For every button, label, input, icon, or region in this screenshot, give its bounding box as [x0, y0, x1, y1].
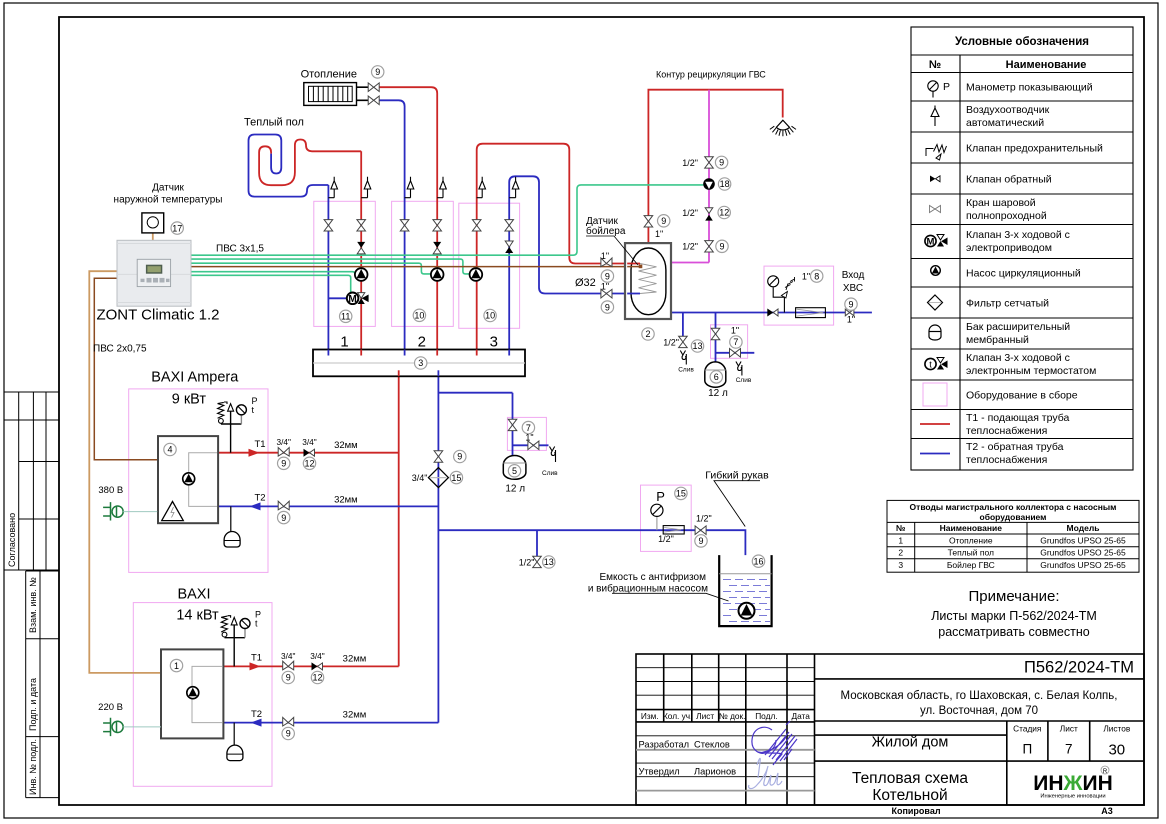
- valve drain13 collector: [533, 556, 542, 567]
- svg-text:T2: T2: [251, 709, 262, 720]
- svg-text:1/2": 1/2": [519, 558, 535, 568]
- wire: tan power wire to boiler2: [89, 271, 161, 673]
- svg-text:Ларионов: Ларионов: [694, 767, 736, 777]
- radiator stubs: [357, 87, 369, 100]
- XVS check valve: [767, 309, 773, 317]
- svg-text:1/2": 1/2": [658, 534, 674, 544]
- legend icon оборудование в сборе: [923, 383, 947, 406]
- legend icon кран шаровой: [930, 206, 941, 213]
- wire: boiler2 T1: [223, 665, 398, 667]
- title block grid: [636, 654, 1144, 805]
- svg-text:13: 13: [544, 557, 554, 567]
- svg-text:Манометр показывающий: Манометр показывающий: [966, 82, 1093, 94]
- svg-text:5: 5: [512, 466, 517, 476]
- svg-text:Стадия: Стадия: [1013, 724, 1041, 734]
- svg-text:7: 7: [1065, 742, 1073, 757]
- svg-text:№: №: [896, 523, 906, 533]
- XVS pressure reducer: [768, 276, 795, 313]
- 3-way valve with motor group1: [328, 293, 368, 306]
- svg-text:наружной температуры: наружной температуры: [114, 195, 223, 206]
- filter strainer: [428, 468, 448, 488]
- svg-text:12: 12: [304, 459, 314, 469]
- svg-text:9: 9: [281, 513, 286, 523]
- svg-text:Кран шаровой: Кран шаровой: [966, 197, 1036, 209]
- boiler2 T1 arrow: [250, 662, 261, 670]
- svg-text:7: 7: [526, 423, 531, 433]
- wire: supply trunk red below collector: [398, 376, 400, 666]
- svg-text:Оборудование в сборе: Оборудование в сборе: [966, 390, 1078, 402]
- valve XVS drain13: [679, 336, 688, 347]
- svg-text:1/2": 1/2": [682, 158, 698, 168]
- svg-text:P: P: [656, 489, 665, 504]
- antifreeze tank: [719, 555, 771, 626]
- svg-text:T1: T1: [255, 439, 266, 450]
- equipment box XVS filter: [764, 266, 834, 325]
- svg-text:9: 9: [605, 302, 610, 312]
- svg-text:17: 17: [172, 223, 182, 233]
- title block header texts: [641, 711, 810, 721]
- svg-text:15: 15: [676, 489, 686, 499]
- wire: boiler1 T2: [218, 505, 438, 507]
- svg-text:Бак расширительный: Бак расширительный: [966, 321, 1070, 333]
- legend icon бак: [929, 325, 941, 340]
- svg-text:Фильтр сетчатый: Фильтр сетчатый: [966, 298, 1049, 310]
- boiler1 membrane tank: [230, 506, 232, 531]
- valve tank5 riser: [508, 419, 517, 430]
- svg-text:1": 1": [601, 282, 609, 292]
- svg-text:M: M: [927, 237, 935, 248]
- wire: DHW magenta: [671, 90, 709, 263]
- boiler2 T2 arrow: [251, 719, 262, 727]
- boiler1 unit: [158, 436, 218, 523]
- svg-text:Подп. и дата: Подп. и дата: [28, 678, 38, 731]
- signature 2: [749, 758, 782, 788]
- svg-text:Т2 - обратная труба: Т2 - обратная труба: [966, 441, 1064, 453]
- svg-text:9: 9: [457, 452, 462, 462]
- wire: boiler2 T2: [223, 722, 438, 724]
- wire: tank6 branch: [716, 313, 755, 362]
- svg-text:Котельной: Котельной: [872, 787, 947, 804]
- svg-text:9: 9: [661, 216, 666, 226]
- svg-text:№: №: [929, 59, 941, 71]
- legend table frame: [911, 27, 1133, 470]
- svg-text:1: 1: [174, 661, 179, 671]
- pump group box 1: [314, 201, 376, 326]
- svg-text:Наименование: Наименование: [940, 523, 1003, 533]
- svg-text:Бойлер ГВС: Бойлер ГВС: [947, 560, 995, 570]
- svg-text:Лист: Лист: [696, 711, 714, 721]
- svg-text:1/2": 1/2": [663, 338, 679, 348]
- wire: boiler1 T1: [218, 452, 399, 454]
- svg-text:теплоснабжения: теплоснабжения: [966, 454, 1047, 466]
- svg-text:Инженерные инновации: Инженерные инновации: [1040, 794, 1105, 800]
- valve boiler2 T1: [283, 661, 294, 670]
- callout емкость: [612, 593, 729, 601]
- svg-text:9: 9: [719, 242, 724, 252]
- wire: boiler hot outlet red riser and recirc: [648, 90, 782, 243]
- svg-text:ИНЖИН: ИНЖИН: [1033, 772, 1113, 795]
- svg-text:Утвердил: Утвердил: [639, 767, 680, 777]
- svg-text:13: 13: [692, 341, 702, 351]
- svg-text:Листов: Листов: [1103, 724, 1131, 734]
- svg-text:Grundfos UPSO 25-65: Grundfos UPSO 25-65: [1040, 536, 1126, 546]
- air vent stub and symbol x6: [328, 177, 519, 198]
- wire: return trunk blue below collector: [437, 376, 439, 722]
- svg-text:18: 18: [720, 179, 730, 189]
- svg-text:32мм: 32мм: [343, 710, 367, 721]
- svg-text:П562/2024-ТМ: П562/2024-ТМ: [1024, 659, 1134, 677]
- svg-text:Дата: Дата: [792, 711, 811, 721]
- svg-text:2: 2: [898, 548, 903, 558]
- wire: group3 blue from boiler: [509, 176, 640, 349]
- XVS filter cartridge: [796, 308, 826, 318]
- legend icon манометр: [928, 81, 938, 98]
- pump 1: [355, 268, 368, 281]
- legend icon воздухоотводчик: [931, 106, 939, 127]
- svg-text:1": 1": [802, 272, 810, 282]
- logo ИНЖИН: [1033, 766, 1113, 800]
- svg-text:Датчик: Датчик: [152, 183, 184, 194]
- valve tank5 drain: [528, 441, 539, 450]
- svg-text:10: 10: [414, 311, 424, 321]
- svg-text:1/2": 1/2": [696, 514, 712, 524]
- check valve magenta: [705, 208, 713, 214]
- svg-text:Клапан предохранительный: Клапан предохранительный: [966, 143, 1103, 155]
- check valve group2 down: [433, 242, 441, 248]
- wire: group3 red to boiler coil: [477, 144, 640, 350]
- wire: XVS cold water line: [671, 312, 872, 314]
- svg-text:2: 2: [645, 329, 650, 339]
- legend icon клапан 3-х терм: [925, 358, 948, 370]
- plug 220V: [103, 718, 161, 736]
- wire: green to pump2: [191, 263, 431, 274]
- wire: radiator supply red: [379, 87, 437, 349]
- svg-text:Слив: Слив: [736, 377, 752, 384]
- svg-text:П: П: [1022, 742, 1032, 757]
- signature 1: [752, 721, 797, 765]
- svg-text:Московская область, го Шаховск: Московская область, го Шаховская, с. Бел…: [841, 690, 1118, 702]
- svg-text:2: 2: [418, 334, 426, 351]
- wire: radiator return blue: [379, 100, 404, 349]
- legend icon T2 line: [920, 453, 950, 455]
- valve antifreeze line: [695, 526, 706, 535]
- svg-text:Grundfos UPSO 25-65: Grundfos UPSO 25-65: [1040, 548, 1126, 558]
- svg-text:3/4": 3/4": [310, 651, 325, 661]
- svg-text:Отопление: Отопление: [301, 69, 357, 81]
- svg-text:Теплый пол: Теплый пол: [948, 548, 994, 558]
- boiler tank: [625, 243, 671, 319]
- svg-text:ХВС: ХВС: [843, 283, 863, 294]
- valve boiler riser: [644, 216, 653, 227]
- drain hook tank5: [550, 447, 556, 463]
- equipment box tank5 valve: [507, 417, 546, 450]
- svg-text:16: 16: [753, 556, 763, 566]
- valve boiler coil in: [601, 258, 612, 267]
- pump group box 3: [459, 203, 520, 328]
- boiler2 unit: [161, 649, 223, 738]
- valve return trunk: [434, 451, 443, 462]
- circled position numbers: [164, 66, 857, 740]
- svg-text:ул. Восточная, дом 70: ул. Восточная, дом 70: [920, 705, 1038, 717]
- wire: brown sensor wire to boiler tank: [191, 266, 641, 268]
- boiler2 safety group: [225, 617, 251, 666]
- legend icon клапан предохранительный: [926, 145, 947, 161]
- boiler sensor point: [639, 265, 643, 269]
- svg-text:9: 9: [698, 536, 703, 546]
- svg-text:Согласовано: Согласовано: [7, 513, 17, 567]
- svg-text:Подл.: Подл.: [755, 711, 777, 721]
- svg-text:220 В: 220 В: [98, 702, 123, 713]
- wire: sensor to ZONT: [152, 233, 154, 240]
- pump 2: [431, 268, 444, 281]
- svg-text:Инв. № подл.: Инв. № подл.: [28, 739, 38, 795]
- svg-text:3/4": 3/4": [276, 437, 291, 447]
- svg-text:полнопроходной: полнопроходной: [966, 210, 1047, 222]
- pump group box 2: [392, 201, 454, 326]
- svg-text:12: 12: [312, 673, 322, 683]
- pipe stubs into collector: [327, 350, 329, 356]
- svg-text:1": 1": [847, 315, 855, 325]
- svg-text:BAXI: BAXI: [177, 587, 210, 603]
- svg-text:11: 11: [341, 312, 350, 322]
- svg-text:бойлера: бойлера: [586, 225, 626, 237]
- valve radiator return: [368, 96, 379, 105]
- wire: floor coil blue part: [249, 135, 329, 197]
- svg-text:и вибрационным насосом: и вибрационным насосом: [588, 583, 708, 595]
- svg-text:Наименование: Наименование: [1006, 59, 1087, 71]
- drain hook tank6: [736, 362, 742, 376]
- svg-text:электронным термостатом: электронным термостатом: [966, 365, 1096, 377]
- valve tank6 drain: [730, 349, 741, 358]
- boiler coil outlet overlay: [627, 293, 640, 295]
- equipment box boiler1: [129, 389, 268, 573]
- wire: green to pump1: [191, 272, 355, 275]
- svg-text:4: 4: [167, 445, 172, 455]
- valve radiator supply: [368, 83, 379, 92]
- wire: antifreeze fill line: [438, 530, 745, 603]
- equipment box tank6 valve: [711, 325, 748, 359]
- legend icon T1 line: [920, 423, 950, 425]
- svg-text:Отопление: Отопление: [949, 536, 993, 546]
- svg-text:1": 1": [525, 433, 533, 443]
- svg-text:Теплый пол: Теплый пол: [244, 117, 304, 129]
- valve boiler1 T2: [278, 501, 289, 510]
- svg-text:Контур рециркуляции ГВС: Контур рециркуляции ГВС: [656, 70, 766, 80]
- svg-text:А3: А3: [1101, 806, 1113, 816]
- svg-text:14 кВт: 14 кВт: [176, 608, 219, 624]
- equipment box pressure unit: [641, 485, 692, 551]
- svg-text:Условные обозначения: Условные обозначения: [955, 36, 1089, 48]
- legend icon клапан 3-х эл: [925, 235, 948, 248]
- check boiler1 T1: [304, 449, 310, 457]
- svg-text:P: P: [943, 81, 950, 93]
- svg-text:T2: T2: [255, 493, 266, 504]
- svg-text:Лист: Лист: [1060, 724, 1078, 734]
- svg-text:Клапан обратный: Клапан обратный: [966, 174, 1052, 186]
- left margin lower boxes: [26, 571, 59, 798]
- svg-text:автоматический: автоматический: [966, 117, 1044, 129]
- boiler1 T1 arrow: [249, 449, 260, 457]
- svg-text:ПВС 2х0,75: ПВС 2х0,75: [93, 344, 147, 355]
- legend icon клапан обратный: [930, 176, 936, 183]
- legend icon фильтр: [928, 295, 943, 310]
- svg-text:9: 9: [375, 67, 380, 77]
- svg-text:9 кВт: 9 кВт: [172, 392, 207, 408]
- svg-text:3/4": 3/4": [412, 473, 428, 483]
- svg-text:Насос циркуляционный: Насос циркуляционный: [966, 268, 1081, 280]
- svg-text:1: 1: [898, 536, 903, 546]
- drain hook boiler left: [680, 351, 686, 365]
- expansion tank 5: [503, 456, 526, 480]
- legend icon насос: [931, 266, 941, 276]
- svg-text:15: 15: [451, 473, 461, 483]
- check valve group3 up: [505, 241, 513, 247]
- svg-text:Жилой дом: Жилой дом: [872, 735, 949, 751]
- svg-text:ZONT Climatic 1.2: ZONT Climatic 1.2: [96, 307, 219, 324]
- svg-text:T1: T1: [251, 653, 262, 664]
- svg-text:Копировал: Копировал: [891, 806, 940, 816]
- svg-text:Модель: Модель: [1067, 523, 1100, 533]
- boiler coil inlet overlay: [627, 263, 640, 265]
- svg-text:12 л: 12 л: [505, 484, 525, 495]
- svg-text:Grundfos UPSO 25-65: Grundfos UPSO 25-65: [1040, 560, 1126, 570]
- left margin grid top section: [4, 392, 59, 570]
- wire: drain branch 13: [536, 530, 538, 556]
- valve boiler coil out: [601, 289, 612, 298]
- svg-text:Отводы магистрального коллекто: Отводы магистрального коллектора с насос…: [910, 502, 1117, 512]
- svg-text:M: M: [348, 294, 356, 305]
- svg-text:1/2": 1/2": [682, 208, 698, 218]
- wire: green to 3way valve: [191, 275, 351, 292]
- svg-text:Листы марки П-562/2024-ТМ: Листы марки П-562/2024-ТМ: [931, 609, 1097, 623]
- valve boiler1 T1: [278, 448, 289, 457]
- wire: XVS drain 13: [682, 313, 684, 337]
- wire: green to recirc pump: [191, 185, 703, 255]
- valve boiler2 T2: [283, 717, 294, 726]
- svg-text:Изм.: Изм.: [641, 711, 659, 721]
- svg-text:Слив: Слив: [678, 367, 694, 374]
- svg-text:теплоснабжения: теплоснабжения: [966, 425, 1047, 437]
- svg-text:Клапан 3-х ходовой с: Клапан 3-х ходовой с: [966, 352, 1070, 364]
- boiler1 T2 arrow: [250, 502, 261, 510]
- svg-text:Клапан 3-х ходовой с: Клапан 3-х ходовой с: [966, 229, 1070, 241]
- wire: group1 blue riser: [327, 185, 329, 350]
- svg-text:3: 3: [490, 334, 498, 351]
- shower head: [770, 120, 796, 136]
- svg-text:9: 9: [848, 299, 853, 309]
- XVS small valve: [845, 309, 854, 316]
- svg-text:10: 10: [485, 311, 495, 321]
- svg-text:3/4": 3/4": [302, 437, 317, 447]
- svg-text:Кол. уч.: Кол. уч.: [663, 711, 693, 721]
- valve magenta lower: [705, 241, 714, 252]
- svg-text:12 л: 12 л: [708, 388, 728, 399]
- svg-text:3/4": 3/4": [281, 651, 296, 661]
- svg-text:8: 8: [814, 271, 819, 281]
- svg-text:6: 6: [714, 372, 719, 382]
- svg-text:32мм: 32мм: [334, 440, 358, 451]
- ball valves on group risers: [324, 220, 513, 231]
- legend texts: [966, 82, 1103, 467]
- valve tank6: [711, 328, 720, 339]
- callout гибкий рукав: [714, 481, 760, 527]
- svg-text:Гибкий рукав: Гибкий рукав: [705, 470, 769, 482]
- svg-text:рассматривать совместно: рассматривать совместно: [938, 625, 1089, 639]
- svg-text:9: 9: [286, 673, 291, 683]
- svg-text:12: 12: [719, 208, 729, 218]
- boiler1 safety group: [221, 404, 247, 453]
- svg-text:9: 9: [286, 729, 291, 739]
- svg-text:Взам. инв. №: Взам. инв. №: [28, 577, 38, 633]
- expansion tank 6: [705, 362, 726, 387]
- pump 3: [470, 268, 483, 281]
- equipment box boiler2: [133, 603, 272, 787]
- svg-text:32мм: 32мм: [334, 495, 358, 506]
- svg-text:электроприводом: электроприводом: [966, 242, 1052, 254]
- svg-text:3: 3: [898, 560, 903, 570]
- svg-text:3: 3: [418, 358, 423, 368]
- svg-text:R: R: [1103, 769, 1108, 775]
- svg-text:380 В: 380 В: [98, 485, 123, 496]
- check valve group1 down: [357, 242, 365, 248]
- svg-text:Тепловая схема: Тепловая схема: [852, 770, 968, 787]
- check boiler2 T1: [312, 662, 318, 670]
- svg-text:Емкость с антифризом: Емкость с антифризом: [600, 571, 707, 583]
- wire: brown power wire to boiler1: [94, 278, 157, 460]
- collector: [313, 350, 525, 377]
- svg-text:оборудованием: оборудованием: [980, 512, 1047, 522]
- svg-text:9: 9: [719, 158, 724, 168]
- svg-text:7: 7: [733, 337, 738, 347]
- svg-text:Воздухоотводчик: Воздухоотводчик: [966, 104, 1050, 116]
- svg-text:1: 1: [340, 334, 348, 351]
- svg-text:Стеклов: Стеклов: [694, 740, 730, 750]
- svg-text:ПВС 3х1,5: ПВС 3х1,5: [216, 244, 264, 255]
- svg-text:BAXI Ampera: BAXI Ampera: [151, 370, 239, 386]
- pressure gauge unit: [651, 504, 684, 534]
- valve magenta top: [705, 157, 714, 168]
- plug 380V: [103, 502, 157, 520]
- boiler2 membrane tank: [233, 723, 235, 745]
- svg-text:9: 9: [281, 459, 286, 469]
- wire: group1 red riser: [360, 151, 362, 349]
- svg-text:мембранный: мембранный: [966, 334, 1029, 346]
- svg-text:Слив: Слив: [542, 470, 558, 477]
- wire: expansion tank5 branch: [438, 393, 548, 456]
- svg-text:Примечание:: Примечание:: [969, 588, 1060, 605]
- wire: green to pump3: [191, 259, 470, 274]
- svg-text:№ док.: № док.: [719, 711, 746, 721]
- svg-text:Вход: Вход: [842, 270, 865, 281]
- svg-text:Разработал: Разработал: [639, 740, 690, 750]
- svg-text:1/2": 1/2": [682, 242, 698, 252]
- boiler sensor wire overlay: [627, 266, 641, 268]
- svg-text:Т1 - подающая труба: Т1 - подающая труба: [966, 412, 1069, 424]
- svg-text:1": 1": [731, 326, 739, 336]
- svg-text:30: 30: [1108, 742, 1125, 759]
- svg-text:9: 9: [605, 271, 610, 281]
- recirc pump 18: [703, 178, 715, 190]
- svg-text:32мм: 32мм: [343, 654, 367, 665]
- svg-text:1": 1": [601, 251, 609, 261]
- outdoor sensor: [142, 213, 164, 233]
- pump table: [887, 500, 1139, 572]
- radiator: [304, 83, 357, 106]
- svg-text:Ø32: Ø32: [575, 277, 596, 289]
- ZONT controller: [117, 240, 191, 306]
- wire: floor coil red part: [259, 140, 361, 186]
- svg-text:1": 1": [655, 229, 663, 239]
